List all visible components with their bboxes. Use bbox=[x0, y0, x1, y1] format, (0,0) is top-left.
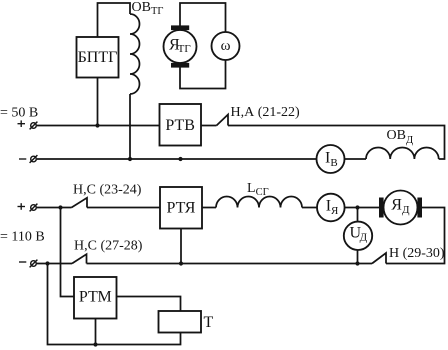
svg-text:РТМ: РТМ bbox=[79, 289, 112, 306]
svg-text:= 50 В: = 50 В bbox=[0, 106, 38, 121]
svg-text:ω: ω bbox=[221, 38, 231, 54]
svg-text:= 110 В: = 110 В bbox=[0, 230, 45, 245]
svg-text:Н (29-30): Н (29-30) bbox=[389, 246, 445, 261]
svg-text:РТВ: РТВ bbox=[165, 117, 195, 134]
svg-text:Н,С (27-28): Н,С (27-28) bbox=[74, 239, 143, 254]
svg-text:БПТГ: БПТГ bbox=[78, 49, 118, 66]
svg-text:Н,А (21-22): Н,А (21-22) bbox=[231, 105, 301, 120]
svg-text:РТЯ: РТЯ bbox=[167, 200, 196, 217]
svg-text:Т: Т bbox=[204, 314, 214, 331]
svg-text:Н,С (23-24): Н,С (23-24) bbox=[73, 183, 142, 198]
